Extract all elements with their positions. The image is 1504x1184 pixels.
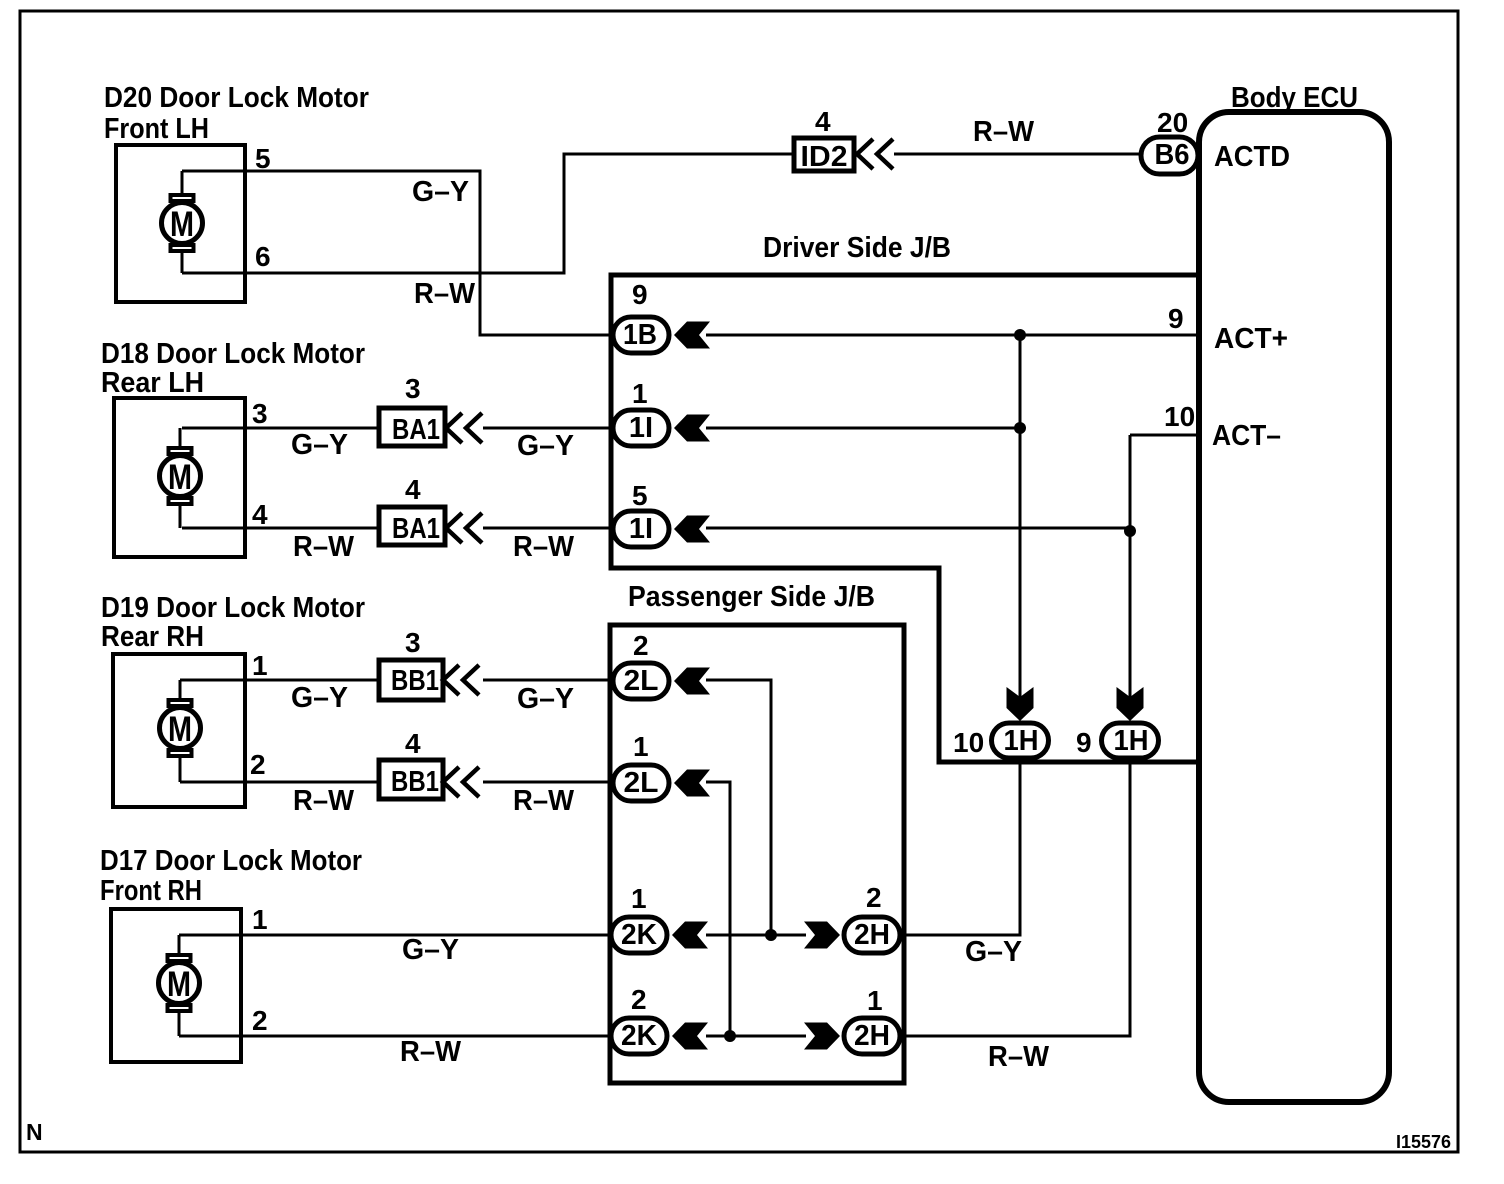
svg-text:3: 3 bbox=[405, 373, 421, 404]
svg-text:D17 Door Lock Motor: D17 Door Lock Motor bbox=[100, 845, 362, 877]
svg-text:M: M bbox=[170, 205, 194, 244]
svg-text:2: 2 bbox=[633, 630, 649, 661]
svg-text:2: 2 bbox=[252, 1005, 268, 1036]
svg-text:G–Y: G–Y bbox=[965, 936, 1022, 968]
svg-text:R–W: R–W bbox=[414, 278, 476, 310]
svg-text:9: 9 bbox=[1076, 727, 1092, 758]
svg-text:2L: 2L bbox=[624, 767, 659, 799]
svg-text:Rear RH: Rear RH bbox=[101, 621, 204, 653]
svg-text:M: M bbox=[168, 458, 192, 497]
svg-text:G–Y: G–Y bbox=[291, 429, 348, 461]
svg-text:ACTD: ACTD bbox=[1214, 141, 1290, 173]
svg-text:R–W: R–W bbox=[400, 1036, 462, 1068]
svg-text:20: 20 bbox=[1157, 107, 1188, 138]
svg-text:Body ECU: Body ECU bbox=[1231, 82, 1358, 114]
svg-text:2K: 2K bbox=[621, 1020, 657, 1052]
svg-text:2H: 2H bbox=[854, 1020, 890, 1052]
svg-text:R–W: R–W bbox=[988, 1041, 1050, 1073]
svg-text:1: 1 bbox=[631, 883, 647, 914]
svg-text:BB1: BB1 bbox=[391, 766, 439, 798]
svg-text:ACT+: ACT+ bbox=[1214, 323, 1288, 355]
svg-text:D19 Door Lock Motor: D19 Door Lock Motor bbox=[101, 592, 365, 624]
svg-text:G–Y: G–Y bbox=[402, 934, 459, 966]
svg-text:10: 10 bbox=[953, 727, 984, 758]
svg-text:1: 1 bbox=[867, 985, 883, 1016]
svg-text:G–Y: G–Y bbox=[291, 682, 348, 714]
svg-text:Rear LH: Rear LH bbox=[101, 367, 204, 399]
svg-text:4: 4 bbox=[405, 474, 421, 505]
svg-text:2: 2 bbox=[250, 749, 266, 780]
svg-text:R–W: R–W bbox=[293, 785, 355, 817]
svg-text:BA1: BA1 bbox=[392, 513, 440, 545]
svg-text:2: 2 bbox=[866, 882, 882, 913]
svg-text:2H: 2H bbox=[854, 919, 890, 951]
svg-text:1: 1 bbox=[252, 904, 268, 935]
svg-text:2L: 2L bbox=[624, 665, 659, 697]
svg-text:1B: 1B bbox=[623, 319, 657, 351]
svg-text:9: 9 bbox=[1168, 303, 1184, 334]
svg-text:G–Y: G–Y bbox=[412, 176, 469, 208]
svg-text:1H: 1H bbox=[1004, 725, 1039, 757]
svg-text:N: N bbox=[26, 1119, 43, 1145]
svg-text:1: 1 bbox=[632, 378, 648, 409]
svg-text:3: 3 bbox=[405, 627, 421, 658]
svg-text:D18 Door Lock Motor: D18 Door Lock Motor bbox=[101, 338, 365, 370]
svg-text:3: 3 bbox=[252, 398, 268, 429]
svg-text:ID2: ID2 bbox=[801, 141, 848, 173]
svg-text:4: 4 bbox=[815, 106, 831, 137]
svg-text:5: 5 bbox=[632, 480, 648, 511]
svg-text:2: 2 bbox=[631, 984, 647, 1015]
svg-text:I15576: I15576 bbox=[1396, 1132, 1451, 1152]
svg-text:6: 6 bbox=[255, 241, 271, 272]
svg-text:Passenger Side J/B: Passenger Side J/B bbox=[628, 581, 875, 613]
svg-text:1: 1 bbox=[252, 650, 268, 681]
svg-text:9: 9 bbox=[632, 279, 648, 310]
svg-text:Front RH: Front RH bbox=[100, 875, 202, 907]
svg-text:Front LH: Front LH bbox=[104, 113, 209, 145]
svg-text:1I: 1I bbox=[629, 513, 653, 545]
svg-text:BA1: BA1 bbox=[392, 414, 440, 446]
svg-text:Driver Side J/B: Driver Side J/B bbox=[763, 232, 951, 264]
svg-text:M: M bbox=[167, 965, 191, 1004]
svg-text:R–W: R–W bbox=[293, 531, 355, 563]
svg-text:G–Y: G–Y bbox=[517, 430, 574, 462]
svg-text:10: 10 bbox=[1164, 401, 1195, 432]
svg-text:1I: 1I bbox=[629, 412, 653, 444]
svg-text:5: 5 bbox=[255, 143, 271, 174]
svg-text:R–W: R–W bbox=[973, 116, 1035, 148]
svg-text:G–Y: G–Y bbox=[517, 683, 574, 715]
svg-text:BB1: BB1 bbox=[391, 665, 439, 697]
svg-text:R–W: R–W bbox=[513, 531, 575, 563]
svg-text:ACT–: ACT– bbox=[1212, 420, 1281, 452]
svg-text:R–W: R–W bbox=[513, 785, 575, 817]
svg-text:1: 1 bbox=[633, 731, 649, 762]
svg-text:M: M bbox=[168, 710, 192, 749]
svg-text:B6: B6 bbox=[1155, 139, 1190, 171]
svg-text:4: 4 bbox=[405, 728, 421, 759]
svg-text:4: 4 bbox=[252, 499, 268, 530]
svg-text:2K: 2K bbox=[621, 919, 657, 951]
svg-text:1H: 1H bbox=[1114, 725, 1149, 757]
svg-text:D20 Door Lock Motor: D20 Door Lock Motor bbox=[104, 82, 369, 114]
